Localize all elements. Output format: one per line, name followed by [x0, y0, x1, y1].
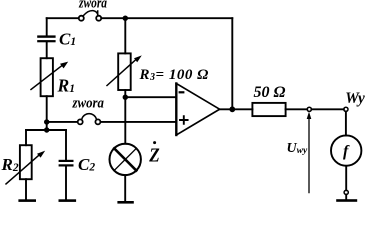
resistor R1 (variable) — [31, 58, 68, 96]
jumper zwora2 — [78, 114, 101, 125]
wire R3 top lead — [124, 18, 126, 53]
node top rail / R3 — [123, 16, 128, 21]
ground lamp — [117, 201, 133, 204]
resistor R3 (variable) — [107, 53, 142, 90]
wire C2 top lead — [65, 130, 67, 160]
svg-text:f: f — [343, 143, 350, 160]
jumper zwora1 — [79, 11, 101, 21]
wire Wy to meter — [345, 111, 347, 135]
wire meter bottom lead — [345, 166, 347, 191]
wire zwora2 left — [47, 121, 77, 123]
wire 50ohm to terminal — [286, 108, 308, 110]
ground C2 — [59, 199, 77, 202]
label C2 — [78, 155, 95, 174]
wire C1 top lead — [46, 18, 48, 35]
label R1 — [57, 75, 75, 95]
ground R2 — [18, 199, 36, 202]
label Wy — [345, 90, 365, 107]
resistor 50ohm — [252, 103, 285, 116]
label Uwy — [287, 141, 308, 156]
wire R3 bottom to lamp — [124, 90, 126, 144]
wire R1 bottom lead — [46, 96, 48, 130]
wire zwora2 to op-amp plus input — [101, 121, 176, 123]
svg-text:Uwy: Uwy — [287, 141, 308, 156]
op-amp U1 — [176, 84, 219, 136]
svg-text:50 Ω: 50 Ω — [254, 84, 286, 101]
meter f — [331, 135, 361, 165]
wire top rail left (C1 branch to jumper) — [47, 17, 78, 19]
ground meter — [336, 199, 357, 202]
wire terminal to ground — [345, 195, 347, 200]
label C1 — [59, 29, 76, 48]
node R3/minus input — [123, 95, 128, 100]
svg-text:C2: C2 — [78, 155, 95, 174]
lamp Z (bulb) — [110, 144, 141, 175]
svg-text:Z: Z — [148, 145, 159, 167]
label f — [343, 143, 350, 160]
wire lamp bottom lead — [124, 175, 126, 201]
terminal node — [307, 107, 311, 111]
label R2 — [1, 155, 19, 174]
svg-text:Wy: Wy — [345, 90, 365, 107]
arrow Uwy — [307, 112, 312, 193]
svg-text:C1: C1 — [59, 29, 76, 48]
svg-text:zwora: zwora — [78, 0, 107, 11]
svg-text:zwora: zwora — [72, 95, 105, 111]
node R1/R2C2 row — [44, 127, 49, 132]
node R1/zwora2 row — [44, 119, 49, 124]
label zwora1 — [78, 0, 107, 11]
node output/feedback — [229, 106, 235, 112]
wire R2 top lead — [25, 130, 27, 145]
wire feedback drop — [231, 18, 233, 109]
wire op-amp output — [220, 108, 253, 110]
wire top rail right — [102, 17, 232, 19]
wire C1-R1 lead — [46, 42, 48, 58]
label R3 value — [139, 67, 209, 83]
capacitor C2 — [59, 160, 74, 167]
wire R2C2 top rail — [26, 129, 66, 131]
svg-text:R3= 100 Ω: R3= 100 Ω — [139, 67, 209, 83]
terminal meter bottom — [344, 190, 348, 194]
label 50 ohm — [254, 84, 286, 101]
svg-text:R2: R2 — [1, 155, 19, 174]
wire R2 bottom lead — [25, 179, 27, 199]
wire to Wy terminal — [311, 108, 343, 110]
label zwora2 — [72, 95, 105, 111]
capacitor C1 — [37, 35, 55, 42]
wire minus input row — [125, 96, 176, 98]
wire C2 bottom lead — [65, 166, 67, 199]
svg-text:R1: R1 — [57, 75, 75, 95]
resistor R2 (variable) — [6, 145, 45, 184]
terminal Wy — [344, 107, 348, 111]
label Z lamp — [148, 141, 159, 167]
